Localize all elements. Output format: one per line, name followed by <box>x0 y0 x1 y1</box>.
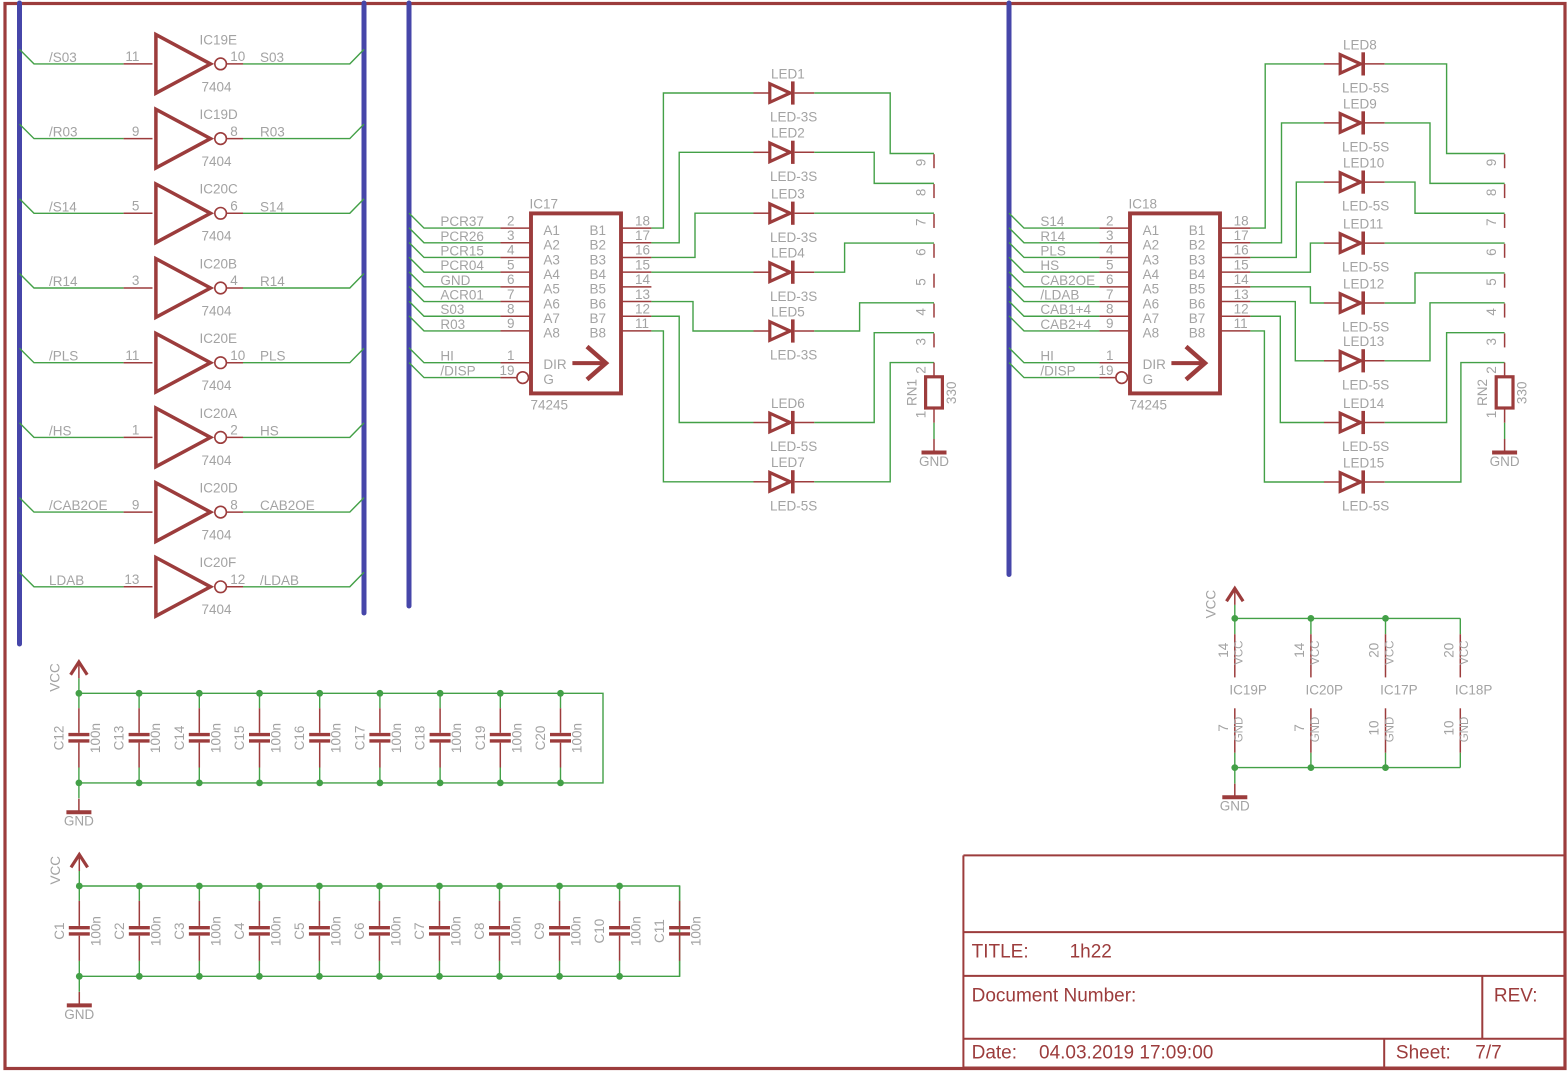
svg-text:IC19P: IC19P <box>1229 683 1267 698</box>
wire CAB2OE (output to bus) <box>243 498 364 512</box>
wire PLS (output to bus) <box>243 348 364 363</box>
svg-text:1: 1 <box>1106 348 1114 363</box>
capacitor C14 (100n) <box>172 693 224 783</box>
wire LED1 to RN1.9 <box>814 93 934 154</box>
wire IC18.B4 to LED11 <box>1250 243 1324 272</box>
svg-text:04.03.2019 17:09:00: 04.03.2019 17:09:00 <box>1039 1043 1213 1064</box>
svg-text:LED6: LED6 <box>771 396 805 411</box>
svg-text:REV:: REV: <box>1494 986 1538 1007</box>
svg-text:7404: 7404 <box>202 453 233 468</box>
wire PCR04 (bus to IC17.A4) <box>409 257 500 272</box>
svg-text:4: 4 <box>230 273 238 288</box>
svg-text:B7: B7 <box>590 311 607 326</box>
wire PCR37 (bus to IC17.A1) <box>409 213 500 228</box>
svg-text:PLS: PLS <box>260 349 286 364</box>
power rail GND (IC power pins) <box>1235 767 1461 769</box>
wire S14 (bus to IC18.A1) <box>1009 213 1099 228</box>
svg-text:7404: 7404 <box>202 528 233 543</box>
svg-text:VCC: VCC <box>1310 641 1322 665</box>
VCC symbol (bank C1-C11) <box>48 855 88 885</box>
svg-text:S14: S14 <box>260 199 285 214</box>
svg-text:VCC: VCC <box>48 856 63 885</box>
svg-text:7/7: 7/7 <box>1475 1043 1501 1064</box>
svg-text:100n: 100n <box>388 916 403 946</box>
wire IC18.B5 to LED12 <box>1250 287 1324 303</box>
svg-text:R03: R03 <box>260 125 285 140</box>
inverter IC19E (7404) <box>124 32 246 94</box>
svg-text:IC17P: IC17P <box>1380 683 1418 698</box>
svg-text:12: 12 <box>635 301 650 316</box>
svg-text:S14: S14 <box>1040 214 1065 229</box>
svg-text:A2: A2 <box>1143 238 1160 253</box>
svg-text:S03: S03 <box>260 50 284 65</box>
svg-text:C16: C16 <box>292 726 307 751</box>
svg-text:A5: A5 <box>1143 282 1160 297</box>
svg-text:B4: B4 <box>590 267 607 282</box>
svg-text:TITLE:: TITLE: <box>972 942 1029 963</box>
svg-text:LED-5S: LED-5S <box>1342 81 1389 96</box>
svg-text:A4: A4 <box>1143 267 1160 282</box>
wire /S03 (bus to IC19E input) <box>20 49 124 64</box>
wire GND stem (IC power pins) <box>1234 768 1236 784</box>
LED LED9 (LED-5S) <box>1324 96 1389 154</box>
svg-text:B3: B3 <box>1189 252 1206 267</box>
LED LED4 (LED-3S) <box>754 246 818 304</box>
svg-text:C10: C10 <box>592 919 607 944</box>
LED LED7 (LED-5S) <box>754 455 818 513</box>
svg-text:B2: B2 <box>590 238 607 253</box>
svg-text:100n: 100n <box>509 916 524 946</box>
svg-text:100n: 100n <box>148 916 163 946</box>
svg-text:R03: R03 <box>440 317 465 332</box>
svg-text:7: 7 <box>914 218 929 226</box>
svg-text:B7: B7 <box>1189 311 1206 326</box>
svg-text:4: 4 <box>1106 243 1114 258</box>
svg-text:15: 15 <box>1234 257 1249 272</box>
svg-text:6: 6 <box>1484 248 1499 256</box>
capacitor C17 (100n) <box>352 693 404 783</box>
svg-text:LED-3S: LED-3S <box>770 230 817 245</box>
LED LED2 (LED-3S) <box>754 126 818 184</box>
svg-text:C19: C19 <box>473 726 488 751</box>
wire CAB1+4 (bus to IC18.A7) <box>1009 301 1099 316</box>
svg-text:G: G <box>1143 372 1154 387</box>
svg-text:HS: HS <box>260 423 279 438</box>
svg-text:LED3: LED3 <box>771 187 805 202</box>
wire /CAB2OE (bus to IC20D input) <box>20 498 124 512</box>
svg-text:8: 8 <box>914 189 929 197</box>
svg-text:/CAB2OE: /CAB2OE <box>49 498 108 513</box>
svg-text:5: 5 <box>914 278 929 286</box>
svg-text:14: 14 <box>1216 642 1231 658</box>
wire R03 (output to bus) <box>243 124 364 139</box>
svg-text:PLS: PLS <box>1040 243 1066 258</box>
svg-text:9: 9 <box>1484 159 1499 167</box>
svg-text:LED12: LED12 <box>1343 276 1384 291</box>
svg-text:1: 1 <box>132 423 140 438</box>
svg-text:100n: 100n <box>148 723 163 753</box>
svg-text:100n: 100n <box>689 916 704 946</box>
svg-text:14: 14 <box>1292 642 1307 658</box>
LED LED10 (LED-5S) <box>1324 156 1389 214</box>
svg-text:CAB2OE: CAB2OE <box>260 498 315 513</box>
svg-text:2: 2 <box>1484 366 1499 374</box>
wire /R03 (bus to IC19D input) <box>20 124 124 139</box>
wire R14 (output to bus) <box>243 274 364 289</box>
svg-text:9: 9 <box>1106 316 1114 331</box>
svg-text:Document Number:: Document Number: <box>972 986 1137 1007</box>
power rail VCC (IC power pins) <box>1235 617 1461 619</box>
svg-text:C5: C5 <box>292 922 307 939</box>
ground (bank C12-C20) <box>64 799 94 829</box>
svg-text:13: 13 <box>635 287 650 302</box>
capacitor C2 (100n) <box>112 886 164 976</box>
svg-text:LED2: LED2 <box>771 126 805 141</box>
svg-text:4: 4 <box>914 308 929 316</box>
svg-text:LED-5S: LED-5S <box>1342 320 1389 335</box>
svg-text:R14: R14 <box>1040 229 1065 244</box>
wire HS (bus to IC18.A4) <box>1009 257 1099 272</box>
wire LED8 to RN2.9 <box>1385 64 1505 154</box>
power pins IC20P <box>1292 618 1343 767</box>
svg-text:9: 9 <box>132 124 140 139</box>
svg-text:6: 6 <box>230 199 238 214</box>
svg-text:C6: C6 <box>352 922 367 939</box>
svg-text:1: 1 <box>914 411 929 419</box>
svg-text:11: 11 <box>125 348 139 363</box>
svg-text:/R14: /R14 <box>49 274 78 289</box>
capacitor C12 (100n) <box>51 693 103 783</box>
svg-text:IC20D: IC20D <box>200 481 239 496</box>
svg-text:LED7: LED7 <box>771 455 805 470</box>
svg-text:2: 2 <box>1106 213 1114 228</box>
wire /S14 (bus to IC20C input) <box>20 199 124 214</box>
svg-text:100n: 100n <box>208 916 223 946</box>
svg-text:/HS: /HS <box>49 423 72 438</box>
wire LED7 to RN1.2 <box>814 363 934 482</box>
svg-text:ACR01: ACR01 <box>440 288 484 303</box>
svg-text:100n: 100n <box>329 723 344 753</box>
wire LED3 to RN1.7 <box>814 212 934 214</box>
svg-text:100n: 100n <box>448 916 463 946</box>
svg-text:11: 11 <box>1234 316 1248 331</box>
svg-text:B2: B2 <box>1189 238 1206 253</box>
svg-text:10: 10 <box>1367 720 1382 735</box>
wire HI (bus to IC17.DIR) <box>409 348 500 363</box>
svg-text:17: 17 <box>1234 228 1249 243</box>
svg-text:A2: A2 <box>543 238 560 253</box>
svg-text:C11: C11 <box>652 919 667 943</box>
svg-text:7404: 7404 <box>202 378 233 393</box>
svg-text:5: 5 <box>1106 257 1114 272</box>
svg-text:B4: B4 <box>1189 267 1206 282</box>
bus 3 (IC17 inputs) <box>407 3 412 606</box>
svg-text:12: 12 <box>230 572 245 587</box>
svg-text:LED-3S: LED-3S <box>770 169 817 184</box>
svg-text:/S03: /S03 <box>49 50 77 65</box>
svg-text:A7: A7 <box>543 311 560 326</box>
svg-text:IC17: IC17 <box>530 197 559 212</box>
svg-text:LED4: LED4 <box>771 246 805 261</box>
ground (bank C1-C11) <box>64 992 94 1022</box>
svg-text:IC19E: IC19E <box>200 32 238 47</box>
svg-text:7: 7 <box>1484 218 1499 226</box>
svg-text:2: 2 <box>914 366 929 374</box>
svg-text:5: 5 <box>132 199 140 214</box>
svg-text:/DISP: /DISP <box>1040 364 1075 379</box>
svg-text:3: 3 <box>1484 338 1499 346</box>
svg-text:7: 7 <box>1292 724 1307 732</box>
svg-text:B3: B3 <box>590 252 607 267</box>
wire LED2 to RN1.8 <box>814 152 934 183</box>
wire IC18.B7 to LED14 <box>1250 316 1324 422</box>
svg-text:6: 6 <box>914 248 929 256</box>
inverter IC20F (7404) <box>124 555 246 617</box>
svg-text:16: 16 <box>635 243 650 258</box>
power rail VCC (capacitor bank C12-C20) <box>79 693 603 783</box>
svg-text:LED9: LED9 <box>1343 96 1377 111</box>
svg-text:A3: A3 <box>543 252 560 267</box>
svg-text:HI: HI <box>440 349 454 364</box>
svg-text:RN2: RN2 <box>1475 379 1490 406</box>
svg-text:GND: GND <box>919 454 949 469</box>
svg-text:B6: B6 <box>590 296 607 311</box>
svg-text:3: 3 <box>507 228 515 243</box>
svg-text:C9: C9 <box>532 922 547 939</box>
junctions on power rails <box>1231 615 1389 771</box>
title block <box>963 855 1565 1067</box>
svg-text:74245: 74245 <box>531 398 569 413</box>
svg-text:7: 7 <box>507 287 515 302</box>
IC IC18 (74245) symbol <box>1098 197 1250 413</box>
svg-text:100n: 100n <box>208 723 223 753</box>
svg-text:C7: C7 <box>412 922 427 939</box>
svg-text:VCC: VCC <box>47 663 62 692</box>
wire IC17.B6 to LED5 <box>651 302 753 331</box>
svg-text:B8: B8 <box>590 326 607 341</box>
svg-text:3: 3 <box>914 338 929 346</box>
wire GND (bus to IC17.A5) <box>409 272 500 287</box>
svg-text:LED-5S: LED-5S <box>1342 377 1389 392</box>
capacitor C1 (100n) <box>52 886 104 976</box>
svg-text:C4: C4 <box>232 922 247 940</box>
svg-text:C3: C3 <box>172 922 187 939</box>
svg-text:C20: C20 <box>533 726 548 751</box>
svg-text:6: 6 <box>1106 272 1114 287</box>
svg-text:4: 4 <box>507 243 515 258</box>
svg-text:LED-5S: LED-5S <box>770 498 817 513</box>
capacitor C5 (100n) <box>292 886 344 976</box>
power rail VCC (capacitor bank C1-C11) <box>79 886 679 976</box>
svg-text:12: 12 <box>1234 301 1249 316</box>
svg-text:LED8: LED8 <box>1343 37 1377 52</box>
svg-text:B5: B5 <box>590 282 607 297</box>
wire /LDAB (bus to IC18.A6) <box>1009 287 1099 302</box>
inverter IC20E (7404) <box>124 331 246 393</box>
capacitor C3 (100n) <box>172 886 224 976</box>
svg-text:C2: C2 <box>112 922 127 939</box>
wire GND stem (bank C1-C11) <box>78 976 80 992</box>
svg-text:B5: B5 <box>1189 282 1206 297</box>
resistor network RN1 (330) <box>905 154 960 423</box>
svg-text:/LDAB: /LDAB <box>1040 288 1079 303</box>
svg-text:B1: B1 <box>1189 223 1206 238</box>
svg-text:10: 10 <box>230 348 245 363</box>
svg-text:GND: GND <box>64 1007 94 1022</box>
wire IC18.B1 to LED8 <box>1250 64 1324 228</box>
svg-text:16: 16 <box>1234 243 1249 258</box>
wire IC17.B2 to LED2 <box>651 152 753 242</box>
svg-text:100n: 100n <box>449 723 464 753</box>
svg-text:GND: GND <box>1459 717 1471 743</box>
LED LED3 (LED-3S) <box>754 187 818 245</box>
ground (IC power pins) <box>1220 784 1250 814</box>
svg-text:GND: GND <box>1220 799 1250 814</box>
svg-text:8: 8 <box>1106 301 1114 316</box>
svg-text:19: 19 <box>499 363 514 378</box>
svg-text:GND: GND <box>1234 717 1246 743</box>
svg-text:CAB1+4: CAB1+4 <box>1040 302 1091 317</box>
wire IC17.B3 to LED3 <box>651 213 753 257</box>
svg-text:LED-5S: LED-5S <box>770 439 817 454</box>
svg-text:IC20B: IC20B <box>200 256 238 271</box>
svg-text:LED11: LED11 <box>1343 217 1383 232</box>
wire RN2.1 to GND <box>1504 423 1506 439</box>
wire GND stem (bank C12-C20) <box>78 783 80 798</box>
svg-text:74245: 74245 <box>1130 398 1168 413</box>
svg-text:CAB2OE: CAB2OE <box>1040 273 1095 288</box>
svg-text:8: 8 <box>230 124 238 139</box>
svg-text:13: 13 <box>124 572 139 587</box>
LED LED15 (LED-5S) <box>1324 455 1389 513</box>
svg-text:LED-5S: LED-5S <box>1342 199 1389 214</box>
svg-text:18: 18 <box>635 213 650 228</box>
svg-text:VCC: VCC <box>1459 641 1471 665</box>
svg-text:HI: HI <box>1040 349 1054 364</box>
wire HI (bus to IC18.DIR) <box>1009 348 1099 363</box>
svg-text:9: 9 <box>132 497 140 512</box>
svg-text:C1: C1 <box>52 922 67 939</box>
svg-text:6: 6 <box>507 272 515 287</box>
svg-text:15: 15 <box>635 257 650 272</box>
LED LED6 (LED-5S) <box>754 396 818 454</box>
wire PLS (bus to IC18.A3) <box>1009 242 1099 257</box>
svg-text:17: 17 <box>635 228 650 243</box>
svg-text:9: 9 <box>507 316 515 331</box>
svg-text:7404: 7404 <box>202 79 233 94</box>
svg-text:330: 330 <box>1515 382 1530 405</box>
junctions on C12-C20 rails <box>76 690 564 786</box>
junctions on C1-C11 rails <box>76 883 623 980</box>
svg-text:VCC: VCC <box>1234 641 1246 665</box>
inverter IC20B (7404) <box>124 256 243 318</box>
svg-text:7: 7 <box>1216 724 1231 732</box>
svg-text:PCR04: PCR04 <box>440 258 484 273</box>
svg-text:A4: A4 <box>543 267 560 282</box>
IC IC17 (74245) symbol <box>499 197 651 413</box>
svg-text:7404: 7404 <box>202 154 233 169</box>
svg-text:1h22: 1h22 <box>1070 942 1112 963</box>
VCC symbol (bank C12-C20) <box>47 662 87 692</box>
svg-text:LED-3S: LED-3S <box>770 348 817 363</box>
svg-text:100n: 100n <box>328 916 343 946</box>
svg-text:A6: A6 <box>543 296 560 311</box>
wire R03 (bus to IC17.A8) <box>409 316 500 331</box>
wire /HS (bus to IC20A input) <box>20 423 124 438</box>
svg-text:R14: R14 <box>260 274 285 289</box>
capacitor C13 (100n) <box>112 693 164 783</box>
wire CAB2+4 (bus to IC18.A8) <box>1009 316 1099 331</box>
svg-text:100n: 100n <box>88 723 103 753</box>
svg-text:/LDAB: /LDAB <box>260 573 299 588</box>
svg-text:VCC: VCC <box>1203 590 1218 619</box>
svg-text:IC20P: IC20P <box>1306 683 1344 698</box>
power pins IC18P <box>1441 618 1492 767</box>
svg-text:IC18P: IC18P <box>1455 683 1493 698</box>
capacitor C9 (100n) <box>532 886 584 976</box>
wire IC17.B4 to LED4 <box>651 271 753 273</box>
capacitor C6 (100n) <box>352 886 404 976</box>
svg-text:PCR26: PCR26 <box>440 229 484 244</box>
svg-text:2: 2 <box>230 423 238 438</box>
svg-text:C12: C12 <box>51 726 66 751</box>
svg-text:B6: B6 <box>1189 296 1206 311</box>
svg-text:PCR15: PCR15 <box>440 243 484 258</box>
wire S03 (output to bus) <box>243 49 364 64</box>
svg-text:G: G <box>543 372 554 387</box>
svg-text:7: 7 <box>1106 287 1114 302</box>
wire IC18.B8 to LED15 <box>1250 331 1324 482</box>
svg-text:A1: A1 <box>543 223 560 238</box>
wire /R14 (bus to IC20B input) <box>20 274 124 289</box>
svg-text:C15: C15 <box>232 726 247 751</box>
svg-text:B1: B1 <box>590 223 607 238</box>
wire LED12 to RN2.5 <box>1385 273 1505 303</box>
svg-text:9: 9 <box>914 159 929 167</box>
wire /DISP (bus to IC17.G) <box>409 363 500 378</box>
svg-text:C8: C8 <box>472 922 487 939</box>
svg-text:LED-5S: LED-5S <box>1342 499 1389 514</box>
wire LED11 to RN2.6 <box>1385 242 1505 244</box>
svg-text:14: 14 <box>635 272 651 287</box>
wire IC17.B7 to LED6 <box>651 316 753 422</box>
bus left (inverter inputs) <box>17 3 22 644</box>
svg-text:LED14: LED14 <box>1343 396 1385 411</box>
wire ACR01 (bus to IC17.A6) <box>409 287 500 302</box>
svg-text:8: 8 <box>230 497 238 512</box>
svg-text:IC20E: IC20E <box>200 331 238 346</box>
wire R14 (bus to IC18.A2) <box>1009 228 1099 243</box>
svg-text:IC20C: IC20C <box>200 182 239 197</box>
wire LED9 to RN2.8 <box>1385 123 1505 183</box>
power pins IC19P <box>1216 618 1267 767</box>
capacitor C10 (100n) <box>592 886 644 976</box>
wire LED4 to RN1.6 <box>814 243 934 272</box>
svg-text:7404: 7404 <box>202 303 233 318</box>
svg-text:LDAB: LDAB <box>49 573 84 588</box>
svg-text:LED-5S: LED-5S <box>1342 140 1389 155</box>
svg-text:100n: 100n <box>629 916 644 946</box>
svg-text:100n: 100n <box>269 723 284 753</box>
svg-text:11: 11 <box>125 49 139 64</box>
LED LED12 (LED-5S) <box>1324 276 1389 334</box>
svg-text:LED10: LED10 <box>1343 156 1384 171</box>
wire RN1.1 to GND <box>933 423 935 439</box>
svg-text:330: 330 <box>944 382 959 405</box>
wire VCC arrow to rail <box>78 871 80 886</box>
wire PCR15 (bus to IC17.A3) <box>409 242 500 257</box>
svg-text:100n: 100n <box>389 723 404 753</box>
